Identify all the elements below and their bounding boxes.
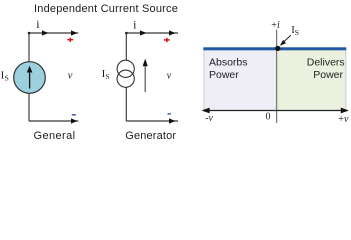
node: IS intersection dot [275, 46, 280, 51]
svg-text:-v: -v [205, 113, 213, 124]
label - (circuit 1, minus) [72, 114, 76, 115]
svg-text:Independent Current Source: Independent Current Source [34, 3, 178, 15]
graph: horizontal v axis [203, 110, 348, 112]
svg-text:+v: +v [338, 114, 349, 125]
svg-text:i: i [133, 17, 137, 31]
svg-text:S: S [105, 72, 109, 81]
wire: circuit 1 top horizontal [29, 32, 78, 34]
wire: circuit 2 left vertical [125, 33, 127, 121]
svg-text:v: v [167, 71, 172, 82]
wire: circuit 2 top horizontal [126, 32, 178, 34]
arrowhead: circuit 1 top wire mid current arrow [42, 30, 48, 35]
graph: IS characteristic line (blue) [203, 47, 346, 50]
wire: circuit 2 bottom horizontal [126, 120, 178, 122]
svg-text:0: 0 [266, 112, 271, 123]
arrowhead: circuit 2 top wire mid current arrow [140, 30, 146, 35]
arrowhead: v axis right [341, 108, 349, 114]
arrowhead: circuit 2 top wire end [169, 30, 175, 35]
generator symbol bottom circle (circuit 2) [117, 70, 134, 87]
current direction arrow beside generator [144, 66, 146, 92]
arrowhead: IS pointer [280, 40, 286, 46]
graph: left border [203, 50, 205, 110]
graph: absorbs-power region (lavender) [204, 50, 277, 110]
svg-text:Power: Power [209, 69, 239, 81]
label + (circuit 2, red) [164, 39, 170, 40]
graph: right border [345, 50, 347, 110]
svg-text:Absorbs: Absorbs [209, 57, 248, 69]
current source circle (circuit 1, General) [14, 62, 46, 94]
svg-text:S: S [5, 74, 9, 83]
arrow inside source circle 1 [29, 72, 31, 89]
generator symbol top circle (circuit 2) [117, 60, 134, 77]
label + (circuit 1, red) [67, 39, 73, 40]
svg-text:S: S [295, 28, 299, 37]
svg-text:Power: Power [313, 69, 343, 81]
wire: circuit 1 left vertical [28, 33, 30, 121]
arrowhead: v axis left [202, 108, 210, 114]
generator symbol bottom circle outline [117, 70, 134, 87]
svg-text:+i: +i [271, 20, 280, 31]
svg-text:General: General [34, 130, 76, 142]
svg-text:Delivers: Delivers [307, 57, 345, 69]
generator symbol top circle outline [117, 60, 134, 77]
graph: delivers-power region (light green) [277, 50, 347, 110]
pointer line from IS label to dot [283, 35, 291, 42]
arrowhead: circuit 2 bottom wire end [169, 118, 175, 123]
arrowhead: circuit 1 bottom wire end [71, 118, 77, 123]
junction dot: circuit 2 top-left corner [125, 32, 127, 34]
wire: circuit 1 bottom horizontal [29, 120, 78, 122]
arrowhead: circuit 1 top wire end [71, 30, 77, 35]
graph: vertical i axis (gray) [276, 30, 278, 124]
junction dot: circuit 1 top-left corner [28, 32, 30, 34]
svg-text:i: i [36, 17, 40, 31]
svg-text:v: v [68, 71, 73, 82]
svg-text:Generator: Generator [125, 130, 176, 142]
label - (circuit 2, minus) [168, 113, 171, 114]
